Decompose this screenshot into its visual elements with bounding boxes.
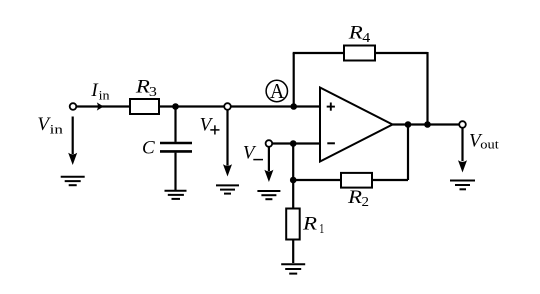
junction: on - input wire <box>290 140 297 147</box>
svg-text:in: in <box>99 88 111 103</box>
ground below R1 <box>281 264 305 273</box>
ground below V- arrow <box>257 191 280 199</box>
voltage arrow for Vout <box>461 128 463 161</box>
wire: node A junction up to R4 branch <box>293 53 295 107</box>
junction: node A on main wire <box>290 103 297 110</box>
wire: - input junction down to R1/R2 node <box>292 144 294 181</box>
ground below Vout arrow <box>450 181 475 190</box>
resistor R1 (vertical) <box>286 209 300 240</box>
junction: output/R4 feedback <box>424 121 431 128</box>
svg-text:4: 4 <box>362 31 370 46</box>
resistor R2 <box>341 173 372 188</box>
wire: V- terminal to op-amp - input <box>272 142 320 144</box>
svg-text:3: 3 <box>149 85 157 100</box>
label Vin <box>37 114 63 136</box>
wire: R2 branch up to output line <box>407 125 409 181</box>
voltage arrow for Vin (down from terminal) <box>72 117 74 155</box>
svg-text:C: C <box>142 138 155 159</box>
svg-text:R: R <box>302 214 318 235</box>
label R2 <box>347 187 369 210</box>
voltage arrow for V- <box>268 147 270 171</box>
wire: R4 branch left segment <box>293 52 344 54</box>
label Iin <box>90 80 110 103</box>
op-amp - pin mark <box>327 142 335 144</box>
label R4 <box>348 22 371 46</box>
junction: R3 output node <box>172 103 179 110</box>
terminal Vin (open circle) <box>70 103 77 110</box>
junction: R1/R2 node <box>290 177 297 184</box>
svg-text:R: R <box>347 187 363 208</box>
wire: R4 branch down to output line <box>426 52 428 125</box>
wire: R4 branch right segment <box>375 52 428 54</box>
capacitor C <box>160 143 192 151</box>
svg-text:A: A <box>270 79 285 103</box>
resistor R3 <box>130 99 159 114</box>
junction: output/R2 feedback <box>405 121 412 128</box>
label V+ <box>200 114 220 135</box>
terminal Vout (open circle) <box>459 121 466 128</box>
ground below V+ arrow <box>216 185 239 193</box>
node A (circled label) <box>266 79 287 103</box>
wire: node down to R1 <box>292 180 294 209</box>
svg-text:1: 1 <box>319 222 324 237</box>
label Vout <box>469 131 499 152</box>
resistor R4 <box>344 46 375 61</box>
wire: R1 to ground <box>292 240 294 264</box>
label R3 <box>135 76 157 100</box>
svg-text:2: 2 <box>362 195 370 210</box>
voltage arrow for V+ <box>226 110 228 166</box>
svg-text:R: R <box>348 22 364 43</box>
ground below Vin arrow <box>61 177 85 186</box>
terminal V- (open circle) <box>266 140 273 147</box>
op-amp + pin mark <box>327 103 335 111</box>
wire: main input line from Vin terminal to op-amp + input <box>76 105 320 107</box>
svg-text:V: V <box>200 114 214 135</box>
label V- <box>243 143 263 164</box>
wire: junction down to capacitor <box>174 107 176 142</box>
wire: op-amp output to Vout terminal <box>393 123 460 125</box>
current arrow Iin on wire <box>97 102 104 110</box>
svg-text:V: V <box>243 143 257 164</box>
svg-text:in: in <box>50 121 64 136</box>
terminal V+ (open circle on main wire) <box>224 103 231 110</box>
label R1 <box>302 214 325 238</box>
ground below capacitor <box>165 191 187 199</box>
svg-text:out: out <box>480 137 499 152</box>
wire: R2 branch from R1/R2 node to output <box>293 179 408 181</box>
op-amp U1 <box>320 88 393 162</box>
wire: capacitor to ground <box>174 153 176 190</box>
